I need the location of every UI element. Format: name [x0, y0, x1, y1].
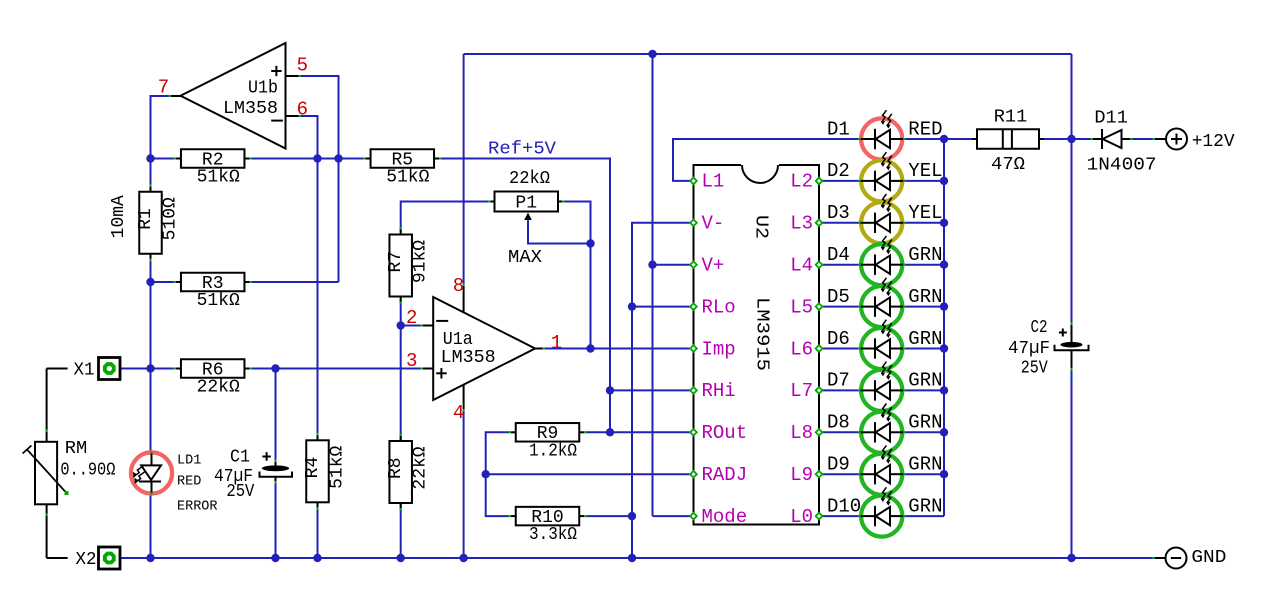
svg-text:D9: D9	[827, 454, 850, 476]
svg-text:GRN: GRN	[908, 454, 942, 476]
junction	[1067, 135, 1075, 143]
capacitor C2	[1008, 318, 1089, 378]
junction	[146, 364, 154, 372]
svg-text:51kΩ: 51kΩ	[327, 446, 347, 489]
wire RHi	[610, 389, 694, 391]
junction D9	[940, 470, 948, 478]
svg-text:7: 7	[158, 76, 169, 98]
wire L0 to D10	[819, 515, 859, 517]
wire D11 to +12V	[1130, 138, 1155, 140]
svg-text:GRN: GRN	[908, 328, 942, 350]
svg-text:D11: D11	[1094, 108, 1128, 128]
terminal +12V	[1152, 129, 1234, 153]
svg-text:P1: P1	[515, 194, 537, 214]
svg-text:LM358: LM358	[441, 348, 496, 368]
svg-text:Imp: Imp	[702, 338, 736, 360]
wire LED rail	[943, 139, 945, 516]
wire pin2 stub	[401, 325, 423, 327]
wire D7 cathode	[905, 389, 945, 391]
trimmer RM	[23, 369, 116, 559]
svg-text:C1: C1	[230, 448, 250, 468]
svg-text:GRN: GRN	[908, 412, 942, 434]
svg-text:6: 6	[297, 98, 308, 120]
junction D6	[940, 344, 948, 352]
junction	[1067, 554, 1075, 562]
svg-text:GRN: GRN	[908, 495, 942, 517]
svg-text:RM: RM	[65, 439, 88, 459]
pin V+	[689, 255, 724, 277]
IC U2 LM3915	[694, 164, 820, 525]
capacitor C1	[214, 448, 292, 503]
svg-text:GRN: GRN	[908, 370, 942, 392]
LED D8	[858, 404, 905, 453]
svg-text:L7: L7	[790, 380, 813, 402]
wire L9 to D9	[819, 473, 859, 475]
wire R1 bottom	[150, 254, 152, 283]
wire LD1 to ground	[150, 494, 152, 558]
svg-text:X2: X2	[76, 550, 97, 570]
wire pin2 to R8	[400, 326, 402, 441]
svg-text:510Ω: 510Ω	[160, 197, 180, 240]
svg-text:22kΩ: 22kΩ	[411, 446, 431, 489]
svg-text:1.2kΩ: 1.2kΩ	[529, 441, 577, 461]
resistor R11	[972, 108, 1044, 176]
svg-text:R8: R8	[386, 457, 406, 479]
junction	[334, 154, 342, 162]
wire R6 to U1a pin3	[250, 368, 423, 370]
svg-text:RED: RED	[908, 118, 942, 140]
svg-text:91kΩ: 91kΩ	[411, 240, 431, 283]
svg-text:25V: 25V	[226, 482, 254, 502]
svg-text:L9: L9	[790, 464, 813, 486]
wire U1a output to Imp	[545, 348, 694, 350]
junction	[271, 364, 279, 372]
svg-text:10mA: 10mA	[109, 195, 129, 238]
svg-text:2: 2	[406, 307, 417, 329]
pin L3	[790, 213, 823, 235]
pin L6	[790, 338, 823, 360]
wire X1 to R6	[118, 368, 176, 370]
svg-text:RADJ: RADJ	[702, 464, 748, 486]
svg-text:51kΩ: 51kΩ	[386, 168, 429, 188]
svg-text:1: 1	[551, 332, 562, 354]
junction	[271, 554, 279, 562]
resistor R9	[508, 423, 587, 461]
svg-text:L2: L2	[790, 171, 813, 193]
pin Imp	[689, 338, 736, 360]
svg-text:C2: C2	[1031, 318, 1048, 338]
svg-text:GND: GND	[1191, 548, 1226, 568]
wire P1 left to R7	[401, 202, 491, 233]
wire R2-R5 row	[250, 158, 367, 160]
junction	[606, 386, 614, 394]
wire D4 cathode	[905, 264, 945, 266]
wire U1b pin5 to R3	[301, 76, 339, 282]
pin RLo	[689, 296, 736, 318]
svg-text:LM3915: LM3915	[752, 297, 772, 371]
wire D9 cathode	[905, 473, 945, 475]
pin Mode	[689, 506, 747, 528]
pin L7	[790, 380, 823, 402]
wire L5 to D5	[819, 306, 859, 308]
junction D5	[940, 302, 948, 310]
pin L8	[790, 422, 823, 444]
wire L4 to D4	[819, 264, 859, 266]
pin ROut	[689, 422, 747, 444]
pin L2	[790, 171, 823, 193]
potentiometer P1	[488, 169, 565, 268]
svg-text:51kΩ: 51kΩ	[197, 168, 240, 188]
wire U1a pin4 to ground	[463, 410, 465, 558]
wire R11 to D11	[1044, 138, 1093, 140]
svg-text:D2: D2	[827, 160, 850, 182]
wire X1 row to LD1	[150, 369, 152, 453]
junction	[397, 554, 405, 562]
svg-text:L5: L5	[790, 296, 813, 318]
pin L4	[790, 255, 823, 277]
svg-text:Mode: Mode	[702, 506, 748, 528]
wire R8 to ground	[400, 504, 402, 558]
wire R1 top	[150, 159, 152, 193]
svg-text:U1a: U1a	[443, 330, 473, 350]
wire R7 to pin2	[400, 299, 402, 326]
svg-text:X1: X1	[74, 360, 95, 380]
svg-text:L8: L8	[790, 422, 813, 444]
resistor R7	[386, 227, 430, 304]
wire Ref to RHi/ROut	[609, 390, 611, 432]
svg-text:R4: R4	[303, 457, 323, 479]
svg-text:1N4007: 1N4007	[1087, 155, 1157, 175]
svg-text:D5: D5	[827, 286, 850, 308]
wire C1 bottom	[275, 481, 277, 558]
wire L6 to D6	[819, 348, 859, 350]
wire R10 right	[585, 515, 632, 517]
wire ground rail	[118, 557, 1155, 559]
junction D7	[940, 386, 948, 394]
junction D4	[940, 261, 948, 269]
svg-text:Ref+5V: Ref+5V	[488, 140, 556, 160]
svg-text:4: 4	[453, 402, 464, 424]
svg-text:L1: L1	[702, 171, 725, 193]
wire RADJ to R10	[486, 474, 510, 516]
wire ROut	[610, 431, 694, 433]
wire R2 row	[151, 158, 177, 160]
svg-text:GRN: GRN	[908, 286, 942, 308]
LED D6	[858, 320, 905, 369]
wire P1 right	[562, 202, 591, 244]
LED D1	[858, 110, 905, 159]
svg-text:47Ω: 47Ω	[991, 155, 1025, 175]
LED D5	[858, 278, 905, 327]
junction	[586, 344, 594, 352]
wire Mode to V+	[653, 515, 694, 517]
terminal X1	[74, 358, 121, 381]
svg-text:5: 5	[297, 54, 308, 76]
svg-text:R11: R11	[994, 108, 1028, 128]
wire RLo	[632, 306, 694, 308]
wire D1 cathode	[905, 138, 945, 140]
junction	[606, 428, 614, 436]
wire R4 to ground	[317, 503, 319, 559]
junction	[146, 554, 154, 562]
junction	[146, 278, 154, 286]
svg-text:+12V: +12V	[1192, 132, 1235, 152]
wire U1b pin7	[151, 96, 172, 159]
wire L7 to D7	[819, 389, 859, 391]
junction	[313, 554, 321, 562]
svg-text:ERROR: ERROR	[177, 500, 218, 515]
svg-text:RHi: RHi	[702, 380, 736, 402]
junction	[628, 554, 636, 562]
pin L1	[689, 171, 724, 193]
wire R9 left to RADJ	[486, 432, 694, 474]
svg-text:3.3kΩ: 3.3kΩ	[529, 525, 577, 545]
svg-text:D10: D10	[827, 495, 861, 517]
junction	[628, 512, 636, 520]
svg-text:D1: D1	[827, 118, 850, 140]
LED D9	[858, 445, 905, 494]
wire R3 right	[250, 281, 339, 283]
svg-text:YEL: YEL	[908, 160, 942, 182]
op-amp U1b	[169, 43, 302, 149]
resistor R10	[508, 507, 587, 545]
wire C1 top	[275, 369, 277, 463]
LED D7	[858, 362, 905, 411]
terminal GND	[1152, 548, 1226, 569]
svg-text:8: 8	[453, 275, 464, 297]
wire P1 wiper	[528, 218, 591, 244]
svg-text:22kΩ: 22kΩ	[197, 378, 240, 398]
junction D2	[940, 177, 948, 185]
svg-text:LM358: LM358	[223, 99, 278, 119]
LED D4	[858, 236, 905, 285]
wire L1 to D1	[673, 139, 859, 181]
junction	[397, 321, 405, 329]
svg-text:D8: D8	[827, 412, 850, 434]
svg-text:V+: V+	[702, 255, 725, 277]
junction	[648, 50, 656, 58]
LED LD1	[131, 451, 172, 495]
wire Ref+5V net	[439, 159, 610, 391]
svg-text:47µF: 47µF	[1008, 339, 1050, 359]
wire D2 cathode	[905, 180, 945, 182]
svg-text:U2: U2	[751, 215, 771, 239]
pin L5	[790, 296, 823, 318]
svg-text:51kΩ: 51kΩ	[197, 291, 240, 311]
resistor R4	[303, 433, 347, 510]
svg-text:L6: L6	[790, 338, 813, 360]
wire P1 to output	[590, 244, 592, 349]
junction	[146, 154, 154, 162]
pin L0	[790, 506, 823, 528]
junction	[586, 239, 594, 247]
LED D2	[858, 152, 905, 201]
wire R9 right	[585, 431, 610, 433]
svg-text:RED: RED	[177, 475, 201, 490]
wire D6 cathode	[905, 348, 945, 350]
wire U1b pin6 to R4	[301, 116, 318, 440]
wire V+ vertical	[652, 54, 654, 516]
svg-text:L0: L0	[790, 506, 813, 528]
svg-text:MAX: MAX	[508, 248, 542, 268]
wire L8 to D8	[819, 431, 859, 433]
svg-text:L4: L4	[790, 255, 813, 277]
svg-text:R1: R1	[136, 208, 156, 230]
wire D5 cathode	[905, 306, 945, 308]
wire D10 cathode	[905, 515, 945, 517]
svg-text:D4: D4	[827, 244, 850, 266]
svg-text:V-: V-	[702, 213, 725, 235]
svg-text:R7: R7	[386, 251, 406, 273]
svg-text:25V: 25V	[1021, 358, 1048, 378]
junction	[648, 261, 656, 269]
pin RHi	[689, 380, 736, 402]
wire +12V top rail	[464, 53, 1072, 55]
junction	[459, 554, 467, 562]
wire L2 to D2	[819, 180, 859, 182]
svg-text:U1b: U1b	[248, 78, 278, 98]
junction D8	[940, 428, 948, 436]
svg-text:0..90Ω: 0..90Ω	[60, 460, 115, 480]
wire V- net	[632, 223, 694, 558]
pin L9	[790, 464, 823, 486]
wire D3 cathode	[905, 222, 945, 224]
svg-text:D7: D7	[827, 370, 850, 392]
resistor R8	[386, 434, 430, 511]
wire C2 branch upper	[1071, 139, 1073, 325]
resistor R3	[173, 273, 252, 311]
op-amp U1a	[420, 284, 545, 412]
svg-text:LD1: LD1	[177, 454, 201, 469]
pin RADJ	[689, 464, 747, 486]
pin V-	[689, 213, 724, 235]
wire U1a pin8 to rail	[463, 54, 465, 285]
wire V+ net	[653, 264, 694, 266]
svg-text:ROut: ROut	[702, 422, 748, 444]
svg-text:D6: D6	[827, 328, 850, 350]
wire R1 col to X1 row	[150, 282, 152, 369]
LED D10	[858, 487, 905, 536]
wire D1 row to R11	[944, 138, 972, 140]
wire R3 left	[151, 281, 177, 283]
junction D3	[940, 219, 948, 227]
svg-text:D3: D3	[827, 202, 850, 224]
svg-text:3: 3	[406, 350, 417, 372]
svg-text:GRN: GRN	[908, 244, 942, 266]
resistor R5	[363, 149, 442, 187]
LED D3	[858, 194, 905, 243]
svg-text:RLo: RLo	[702, 296, 736, 318]
junction D1	[940, 135, 948, 143]
wire C2 branch lower	[1071, 368, 1073, 558]
resistor R2	[173, 149, 252, 187]
diode D11	[1087, 108, 1157, 175]
resistor R1	[109, 184, 180, 261]
wire L3 to D3	[819, 222, 859, 224]
junction	[482, 470, 490, 478]
terminal X2	[76, 547, 121, 570]
resistor R6	[173, 359, 252, 397]
junction	[313, 154, 321, 162]
wire D8 cathode	[905, 431, 945, 433]
svg-text:22kΩ: 22kΩ	[509, 169, 550, 189]
svg-text:L3: L3	[790, 213, 813, 235]
wire +12V vertical	[1071, 54, 1073, 139]
junction	[628, 302, 636, 310]
svg-text:YEL: YEL	[908, 202, 942, 224]
